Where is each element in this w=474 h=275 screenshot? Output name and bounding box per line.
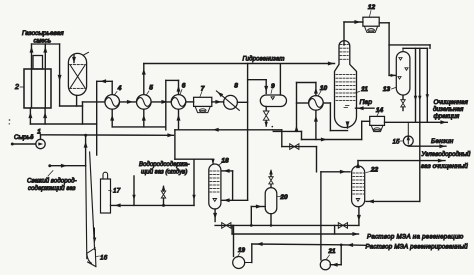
- svg-text:6: 6: [182, 83, 186, 90]
- svg-text:2: 2: [14, 84, 19, 91]
- svg-text:22: 22: [370, 167, 379, 174]
- svg-text:7: 7: [201, 86, 205, 93]
- svg-text:20: 20: [279, 194, 288, 201]
- svg-text:Гидрогенизат: Гидрогенизат: [243, 55, 285, 62]
- svg-text:фракция: фракция: [434, 113, 460, 120]
- svg-text:9: 9: [271, 83, 275, 90]
- svg-text:содержащий газ: содержащий газ: [28, 185, 76, 192]
- svg-text:Водородсодержа-: Водородсодержа-: [139, 161, 189, 168]
- svg-text:Бензин: Бензин: [431, 138, 454, 145]
- svg-text:Углеводородный: Углеводородный: [421, 151, 471, 158]
- svg-text:Сырьё: Сырьё: [14, 134, 34, 141]
- svg-text:19: 19: [238, 247, 245, 254]
- svg-text:Пар: Пар: [360, 99, 373, 106]
- svg-text:дизельная: дизельная: [433, 105, 464, 113]
- svg-text:18: 18: [221, 158, 229, 165]
- svg-text:Раствор МЭА регенерированный: Раствор МЭА регенерированный: [366, 244, 469, 251]
- svg-text:13: 13: [383, 86, 391, 93]
- svg-text:8: 8: [234, 83, 238, 90]
- svg-text:21: 21: [328, 248, 336, 255]
- svg-text:12: 12: [368, 4, 376, 11]
- svg-text:14: 14: [376, 107, 384, 114]
- svg-text:5: 5: [149, 85, 153, 92]
- svg-text:17: 17: [113, 188, 121, 195]
- svg-text:щий газ (отдув): щий газ (отдув): [141, 168, 187, 175]
- svg-text:газ очищенный: газ очищенный: [421, 162, 468, 170]
- svg-text:Газосырьевая: Газосырьевая: [22, 30, 64, 37]
- svg-text:Раствор МЭА на регенерацию: Раствор МЭА на регенерацию: [367, 234, 464, 241]
- svg-text:15: 15: [393, 139, 400, 146]
- svg-text:4: 4: [117, 85, 122, 92]
- svg-text:Очищенная: Очищенная: [434, 99, 469, 106]
- svg-text:Свежий водород-: Свежий водород-: [27, 177, 77, 184]
- svg-text:16: 16: [100, 255, 108, 262]
- svg-text:11: 11: [361, 86, 368, 93]
